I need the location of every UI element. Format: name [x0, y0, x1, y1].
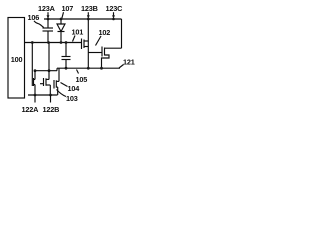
capacitor 106 [47, 19, 49, 28]
arrow 123C [113, 12, 115, 17]
wire H4 [28, 94, 58, 96]
transistor 122B [43, 78, 45, 86]
stub 122B [50, 95, 52, 103]
transistor 122A [33, 78, 35, 86]
wire right vertical [121, 19, 123, 48]
junction dot H2 a [31, 41, 34, 44]
transistor 103 [53, 80, 55, 89]
wire H3 right [57, 67, 120, 69]
junction dot H3L b [48, 69, 51, 72]
svg-text:106: 106 [28, 13, 40, 22]
leader 107 [62, 12, 64, 18]
junction dot 122B [49, 94, 52, 97]
transistor 102 [88, 52, 102, 54]
top rail wire [44, 18, 122, 20]
svg-text:101: 101 [72, 28, 84, 37]
svg-text:123C: 123C [106, 4, 124, 13]
svg-text:121: 121 [123, 58, 135, 67]
leader 106 [34, 21, 44, 28]
wire vertical x49 [48, 43, 50, 80]
junction dot H2 c [60, 41, 63, 44]
junction dot 122A [34, 94, 37, 97]
junction dot H2 d [65, 41, 68, 44]
junction dot H3/105cap [65, 67, 68, 70]
svg-text:122B: 122B [43, 105, 60, 114]
junction dot H3/102src [100, 67, 103, 70]
diode 107 [60, 19, 62, 24]
svg-text:104: 104 [68, 84, 81, 93]
svg-text:102: 102 [99, 28, 111, 37]
leader 103 [57, 90, 67, 97]
wire 123B vertical [87, 19, 89, 68]
wire vertical x31.5 gate feed [31, 43, 33, 87]
leader 102 [96, 36, 102, 46]
wire H3 join vertical [56, 68, 58, 71]
svg-text:103: 103 [66, 94, 78, 103]
arrow 123A [47, 12, 49, 17]
svg-text:123A: 123A [38, 4, 56, 13]
junction dot H3L a [34, 69, 37, 72]
mid wire H2 [25, 42, 82, 44]
junction dot rail/106 [47, 18, 50, 21]
junction dot H2 b [47, 41, 50, 44]
svg-text:107: 107 [62, 4, 74, 13]
svg-text:105: 105 [76, 75, 88, 84]
leader 104 [61, 83, 68, 87]
capacitor 105 [65, 43, 67, 57]
junction dot rail/123B [87, 18, 90, 21]
junction dot rail/107 [60, 18, 63, 21]
transistor 101 [81, 39, 83, 50]
circuit block 100 [8, 18, 25, 99]
svg-text:122A: 122A [22, 105, 40, 114]
stub 122A [34, 95, 36, 103]
wire H3 left [35, 70, 58, 72]
svg-text:100: 100 [11, 55, 23, 64]
arrow 123B [87, 12, 89, 17]
junction dot H3/123Bvert [87, 67, 90, 70]
leader 105 [77, 70, 79, 74]
leader 121 [119, 65, 124, 69]
leader 101 [73, 36, 76, 42]
svg-text:123B: 123B [81, 4, 98, 13]
